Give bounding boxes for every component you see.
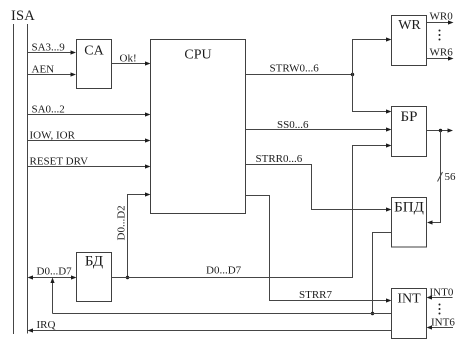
- svg-text:SA0...2: SA0...2: [32, 104, 65, 116]
- wire input INT6: [427, 317, 456, 330]
- wire IRQ from INT to ISA bus: [28, 319, 392, 333]
- block BPD: [392, 198, 427, 248]
- wire output WR0: [427, 11, 454, 25]
- svg-text:AEN: AEN: [32, 64, 55, 76]
- wire RESET DRV with label: [28, 156, 151, 169]
- svg-text:SS0...6: SS0...6: [277, 119, 309, 131]
- wire SA0...2 with label: [28, 104, 151, 117]
- wire BR output with junction: [427, 128, 454, 132]
- wire D0...D7 from BD to BR: [112, 143, 392, 277]
- svg-text:SA3...9: SA3...9: [32, 42, 66, 54]
- wire AEN with label: [28, 64, 77, 77]
- block BR: [392, 107, 427, 157]
- wire SS0...6 from CPU to BR: [246, 119, 392, 132]
- svg-text:INT6: INT6: [431, 317, 455, 329]
- ISA bus line right: [27, 24, 29, 334]
- svg-text:WR: WR: [398, 18, 421, 33]
- svg-text:Ok!: Ok!: [120, 53, 137, 65]
- wire output WR6: [427, 47, 454, 61]
- wire STRW branch up to WR: [353, 37, 392, 74]
- dots between WR0 and WR6: [439, 30, 441, 41]
- svg-text:D0...D7: D0...D7: [37, 266, 73, 278]
- wire D0...D2 from D-bus up into CPU, rotated label: [116, 192, 151, 279]
- block BD: [77, 253, 112, 302]
- wire STRW0...6 from CPU with junction: [246, 63, 355, 77]
- svg-text:D0...D7: D0...D7: [206, 265, 242, 277]
- svg-text:WR0: WR0: [430, 11, 454, 23]
- svg-text:БД: БД: [85, 254, 103, 270]
- svg-text:STRW0...6: STRW0...6: [270, 63, 320, 75]
- svg-text:CPU: CPU: [184, 48, 211, 63]
- svg-text:БПД: БПД: [394, 200, 424, 216]
- wire Ok! from CA to CPU: [112, 53, 151, 66]
- svg-text:D0...D2: D0...D2: [116, 205, 128, 240]
- wire data line to INT: [53, 313, 392, 315]
- svg-text:WR6: WR6: [430, 47, 454, 59]
- svg-text:RESET DRV: RESET DRV: [30, 156, 89, 168]
- svg-text:IRQ: IRQ: [37, 319, 56, 331]
- block INT: [392, 289, 427, 339]
- ISA bus line left: [13, 24, 15, 334]
- svg-text:ISA: ISA: [11, 8, 35, 24]
- wire from INT data line up into D0...D7 line: [50, 278, 54, 314]
- block CPU: [151, 40, 246, 214]
- svg-text:INT: INT: [397, 292, 421, 307]
- svg-text:БР: БР: [401, 109, 418, 125]
- wire SA3...9 with label: [28, 42, 77, 55]
- wire STRR7 from CPU to INT: [246, 196, 392, 303]
- wire from BR junction down to BPD right side: [427, 131, 441, 225]
- svg-text:INT0: INT0: [430, 287, 454, 299]
- wire STRW branch down to BR: [353, 75, 392, 114]
- block CA: [77, 40, 112, 89]
- svg-text:56: 56: [445, 171, 457, 183]
- bus width marker /56: [438, 171, 457, 183]
- wire from BPD left down to INT data line: [371, 233, 392, 316]
- ISA bus label: [11, 8, 35, 24]
- wire D0...D7 between ISA bus and BD (bidirectional): [28, 266, 77, 280]
- wire STRR0...6 from CPU to BPD: [246, 153, 392, 212]
- dots between INT0 and INT6: [439, 304, 441, 315]
- svg-text:CA: CA: [84, 44, 104, 59]
- svg-text:IOW, IOR: IOW, IOR: [30, 130, 76, 142]
- block WR: [392, 16, 427, 66]
- svg-text:STRR7: STRR7: [299, 289, 333, 301]
- wire input INT0: [427, 287, 454, 300]
- svg-text:STRR0...6: STRR0...6: [256, 153, 303, 165]
- wire IOW, IOR with label: [28, 130, 151, 143]
